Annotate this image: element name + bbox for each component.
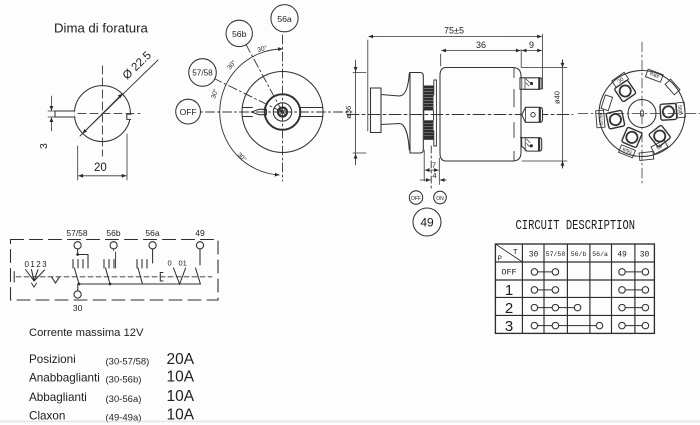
rear terminal 49 square bbox=[648, 125, 670, 147]
svg-text:75±5: 75±5 bbox=[444, 26, 464, 36]
svg-text:Anabbaglianti: Anabbaglianti bbox=[29, 372, 100, 385]
dim phi40 line bbox=[562, 60, 564, 168]
mounting step bbox=[434, 80, 437, 146]
svg-text:Corrente massima 12V: Corrente massima 12V bbox=[29, 327, 144, 339]
schematic center dashed line bbox=[16, 276, 212, 278]
dim 3 line bbox=[50, 96, 52, 110]
rear label 49a bbox=[645, 69, 663, 82]
rear label 57/58 bbox=[596, 110, 606, 128]
dim 7-4 extension lines bbox=[424, 150, 439, 185]
rear key ear bottom bbox=[639, 151, 654, 160]
circuit description table bbox=[495, 218, 654, 335]
dial radial dashdot 30deg bbox=[246, 44, 283, 112]
corrente massima text block bbox=[29, 327, 195, 424]
dial radial dashdot horizontal left bbox=[201, 111, 283, 113]
svg-text:4: 4 bbox=[432, 171, 436, 180]
terminal circle 56a bbox=[149, 242, 156, 249]
svg-text:30°: 30° bbox=[209, 87, 220, 99]
dim 3 extension lines bbox=[48, 111, 56, 117]
rear terminal 56a square bbox=[621, 127, 642, 148]
dim 7 line bbox=[425, 169, 438, 171]
circle OFF small bbox=[409, 191, 422, 204]
svg-text:56/b: 56/b bbox=[571, 251, 587, 258]
rear key ear left bbox=[601, 95, 613, 111]
template circle bbox=[74, 86, 130, 142]
svg-text:49: 49 bbox=[420, 216, 434, 230]
svg-text:3: 3 bbox=[38, 143, 50, 149]
dial outer circle bbox=[242, 72, 323, 153]
svg-text:CIRCUIT DESCRIPTION: CIRCUIT DESCRIPTION bbox=[516, 218, 636, 234]
svg-text:56/b: 56/b bbox=[676, 105, 683, 115]
svg-text:3: 3 bbox=[505, 318, 513, 335]
svg-text:Abbaglianti: Abbaglianti bbox=[29, 391, 87, 404]
svg-text:57/58: 57/58 bbox=[598, 112, 605, 125]
dial radial dashdot vertical bbox=[282, 32, 284, 181]
56b stem bbox=[114, 249, 116, 268]
dim phi36 extension lines bbox=[353, 73, 366, 154]
30 junction dot bbox=[78, 283, 81, 286]
56b blade bbox=[106, 268, 111, 284]
49 blade bbox=[196, 268, 201, 284]
table vertical lines bbox=[522, 244, 635, 333]
dial screw cross bbox=[281, 110, 285, 114]
rear label 56a bbox=[619, 145, 636, 158]
circle ON small bbox=[434, 191, 447, 204]
terminal circle 30 bbox=[74, 291, 81, 298]
svg-text:30: 30 bbox=[73, 303, 83, 313]
57/58 stem bbox=[77, 249, 79, 255]
dim 20 extension lines bbox=[78, 134, 127, 180]
rear crosshair vertical bbox=[641, 42, 643, 186]
key slot bbox=[252, 109, 267, 114]
dim 36 extension lines bbox=[441, 50, 522, 68]
rear inner circle bbox=[628, 100, 656, 128]
56b junction dot bbox=[109, 283, 112, 286]
position circle OFF bbox=[176, 99, 201, 124]
terminal 2 bbox=[522, 107, 543, 122]
56a stem bbox=[152, 249, 154, 263]
svg-text:57/58: 57/58 bbox=[66, 228, 88, 238]
position circle 56a bbox=[271, 5, 298, 32]
svg-text:10A: 10A bbox=[167, 388, 195, 405]
56a contact ticks bbox=[137, 260, 147, 269]
56b contact ticks bbox=[104, 260, 114, 269]
left terminus tick bbox=[13, 272, 15, 283]
key slot side lines right bbox=[301, 108, 323, 117]
svg-text:49: 49 bbox=[655, 142, 663, 150]
svg-text:10A: 10A bbox=[167, 369, 195, 386]
template centerline horizontal bbox=[66, 113, 140, 115]
zigzag bbox=[52, 277, 60, 283]
schematic dashed border bbox=[11, 240, 219, 301]
57/58 contact ticks bbox=[73, 260, 88, 269]
rear label 49 bbox=[651, 140, 668, 154]
dial radial dashdot horizontal right bbox=[283, 111, 353, 113]
dim 75 extension lines bbox=[368, 34, 543, 131]
49 stem bbox=[199, 249, 201, 265]
template centerline vertical bbox=[101, 66, 103, 156]
rear label 30 bbox=[612, 72, 629, 87]
svg-text:ø40: ø40 bbox=[553, 91, 562, 104]
terminal circle 49 bbox=[196, 242, 203, 249]
rear crosshair horizontal bbox=[578, 113, 700, 115]
bushing middle shaft bbox=[424, 111, 434, 121]
svg-text:20: 20 bbox=[94, 162, 107, 174]
dim phi40 extension lines bbox=[522, 68, 567, 162]
svg-text:30: 30 bbox=[529, 251, 539, 260]
svg-text:OFF: OFF bbox=[180, 107, 197, 117]
template right notch bbox=[127, 114, 131, 119]
row OFF contacts bbox=[534, 271, 555, 273]
56a blade bbox=[138, 268, 143, 284]
template left slot bbox=[55, 111, 75, 117]
svg-text:Posizioni: Posizioni bbox=[29, 353, 76, 366]
svg-text:49: 49 bbox=[617, 251, 627, 260]
rear center mark bbox=[641, 111, 644, 116]
bracket bbox=[160, 273, 163, 282]
dim 9 extension line bbox=[522, 50, 542, 52]
key slot side lines left bbox=[242, 108, 252, 117]
svg-text:(30-57/58): (30-57/58) bbox=[106, 357, 150, 368]
dim 36 line bbox=[442, 50, 521, 52]
dial radial dashdot 60deg bbox=[215, 79, 283, 112]
dial screw circle bbox=[278, 108, 287, 117]
rear terminal 30 square bbox=[614, 80, 636, 102]
57/58 blade bbox=[74, 268, 79, 284]
svg-text:20A: 20A bbox=[167, 351, 195, 368]
terminal 3 bbox=[520, 138, 542, 151]
svg-text:56b: 56b bbox=[232, 29, 247, 39]
svg-text:ON: ON bbox=[436, 196, 444, 202]
svg-text:(30-56a): (30-56a) bbox=[106, 394, 142, 405]
rear view group bbox=[578, 42, 700, 186]
threaded bushing bottom bbox=[424, 120, 434, 140]
body rear cap line bbox=[513, 68, 515, 161]
rear key ear topright bbox=[665, 79, 680, 95]
svg-text:Dima di foratura: Dima di foratura bbox=[54, 21, 148, 36]
svg-text:56b: 56b bbox=[106, 228, 120, 238]
dim 75 line bbox=[369, 36, 542, 38]
knob flange bbox=[410, 73, 423, 154]
knob neck and bell bbox=[381, 73, 409, 150]
svg-text:57/58: 57/58 bbox=[546, 251, 566, 258]
corner diagonal bbox=[495, 244, 522, 262]
circle 49 bbox=[413, 208, 441, 236]
svg-text:57/58: 57/58 bbox=[192, 69, 213, 78]
position circle 56b bbox=[226, 20, 252, 46]
svg-text:56/a: 56/a bbox=[592, 251, 608, 258]
scan streak bottom bbox=[0, 421, 700, 423]
rear terminal 56b square bbox=[660, 103, 677, 120]
57/58 bridge bbox=[78, 255, 88, 260]
terminal circle 57/58 bbox=[74, 242, 81, 249]
rotary dial group bbox=[176, 5, 352, 181]
switch body bbox=[440, 68, 521, 162]
svg-text:30: 30 bbox=[640, 251, 650, 260]
table horizontal lines bbox=[495, 262, 654, 315]
svg-text:ø36: ø36 bbox=[344, 106, 353, 119]
svg-text:9: 9 bbox=[529, 40, 534, 50]
wiring schematic group bbox=[11, 228, 219, 313]
rear terminal 57/58 square bbox=[606, 110, 625, 129]
rotation arc bbox=[220, 49, 283, 175]
svg-text:01: 01 bbox=[179, 259, 187, 268]
svg-text:OFF: OFF bbox=[411, 196, 421, 202]
svg-text:Ø 22.5: Ø 22.5 bbox=[121, 50, 154, 83]
position circle 57/58 bbox=[189, 59, 217, 87]
vee contact bbox=[174, 268, 186, 284]
table outer border bbox=[495, 244, 654, 333]
position fan arrow bbox=[32, 283, 37, 287]
terminal circle 56b bbox=[110, 242, 117, 249]
rear outer circle bbox=[599, 71, 685, 157]
bus line bbox=[79, 283, 200, 285]
svg-text:OFF: OFF bbox=[501, 268, 516, 278]
diameter dim line Ø22.5 bbox=[80, 60, 158, 136]
svg-text:(30-56b): (30-56b) bbox=[106, 375, 142, 386]
row 2 contacts bbox=[534, 307, 577, 309]
drilling template group bbox=[38, 50, 158, 180]
rear label 56b bbox=[676, 102, 685, 118]
dim 4 line bbox=[420, 179, 430, 181]
svg-text:56a: 56a bbox=[277, 14, 292, 24]
knob grip bbox=[371, 88, 382, 133]
svg-text:P: P bbox=[498, 256, 503, 264]
terminal 1 bbox=[520, 78, 542, 90]
dim 20 line bbox=[79, 175, 127, 177]
svg-text:7: 7 bbox=[432, 161, 436, 170]
row 1 contacts bbox=[534, 289, 555, 291]
dial boss circle bbox=[265, 94, 301, 130]
svg-text:56a: 56a bbox=[145, 228, 159, 238]
row 3 contacts bbox=[534, 325, 599, 327]
svg-text:2: 2 bbox=[505, 300, 513, 317]
side view group bbox=[344, 26, 573, 237]
threaded bushing top bbox=[424, 86, 434, 111]
position fan bbox=[26, 270, 45, 282]
svg-text:36: 36 bbox=[476, 40, 486, 50]
svg-text:30°: 30° bbox=[236, 151, 249, 164]
side view centerline bbox=[347, 114, 573, 116]
svg-text:0 1 2 3: 0 1 2 3 bbox=[25, 260, 48, 269]
57/58 junction dot bbox=[76, 253, 79, 256]
30 stem bbox=[77, 284, 79, 291]
svg-text:49: 49 bbox=[195, 228, 205, 238]
svg-text:T: T bbox=[513, 249, 518, 257]
svg-text:0: 0 bbox=[168, 259, 172, 268]
shaft dashdot down bbox=[430, 146, 432, 190]
dim phi36 line bbox=[355, 60, 357, 165]
dial inner circle bbox=[273, 103, 291, 121]
svg-text:1: 1 bbox=[505, 282, 513, 299]
svg-text:Claxon: Claxon bbox=[29, 410, 65, 423]
